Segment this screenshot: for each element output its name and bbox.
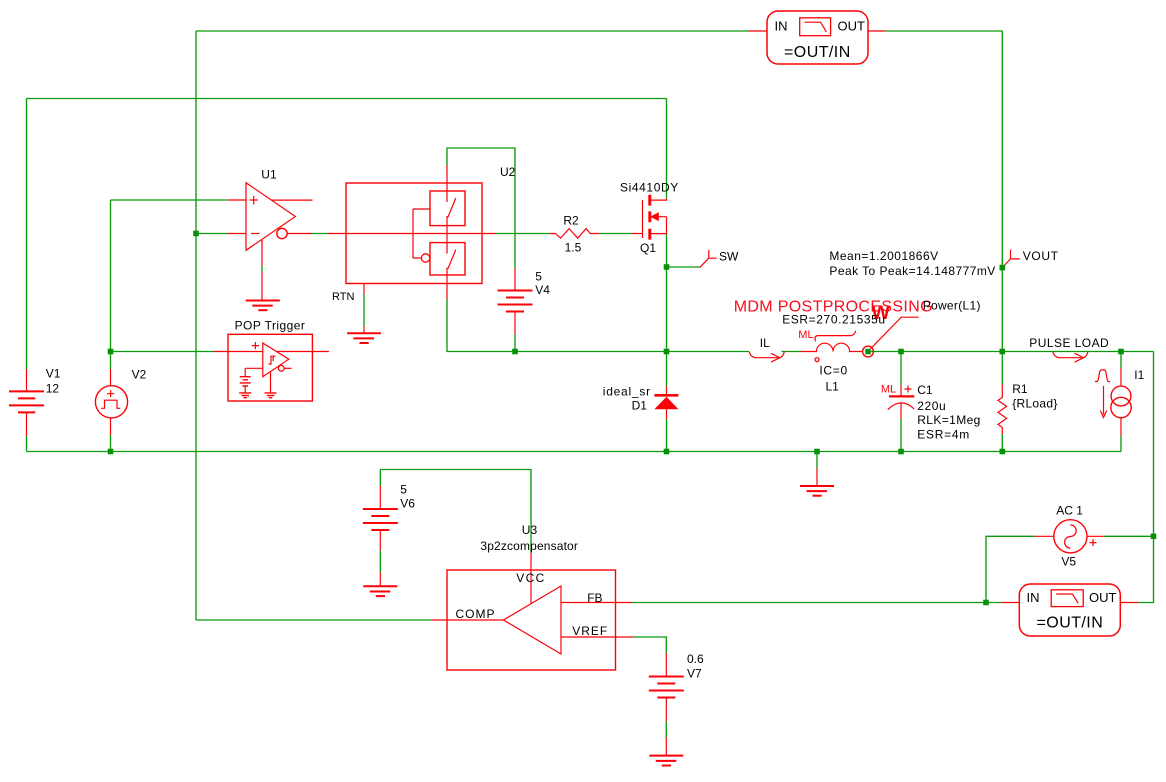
wire V7 bottom <box>665 721 667 737</box>
junction R1 bottom on ground rail <box>1000 449 1006 455</box>
wire V2 bottom branch <box>110 435 112 452</box>
svg-text:Si4410DY: Si4410DY <box>620 181 679 195</box>
junction AC source to VOUT rail <box>1151 534 1157 540</box>
pulse source V2 <box>95 367 146 435</box>
svg-text:Q1: Q1 <box>640 241 656 255</box>
svg-text:V6: V6 <box>400 497 415 511</box>
battery V1 12 <box>9 367 61 437</box>
junction COMP net at U1 minus input <box>193 231 199 237</box>
wire output rail segment 1 <box>667 351 750 353</box>
wire V2 node vertical <box>110 200 112 352</box>
svg-text:C1: C1 <box>917 383 933 397</box>
svg-text:U3: U3 <box>522 523 538 537</box>
svg-text:POP Trigger: POP Trigger <box>235 318 306 332</box>
svg-text:12: 12 <box>46 382 60 396</box>
wire U1 ground lead <box>261 266 263 272</box>
svg-text:220u: 220u <box>917 399 946 413</box>
svg-text:=OUT/IN: =OUT/IN <box>1037 615 1104 632</box>
wire V6 bottom <box>379 551 381 573</box>
resistor R1 {RLoad} <box>998 382 1058 434</box>
wire to POP trigger <box>111 351 215 353</box>
svg-text:AC 1: AC 1 <box>1056 503 1083 517</box>
svg-text:V7: V7 <box>687 667 702 681</box>
svg-text:ideal_sr: ideal_sr <box>603 384 651 398</box>
svg-text:D1: D1 <box>632 399 648 413</box>
junction V2 top node <box>108 349 114 355</box>
capacitor C1 <box>881 383 981 442</box>
junction V2 bottom on ground rail <box>108 449 114 455</box>
wire SW node vertical <box>666 234 668 386</box>
probe VOUT <box>1002 249 1058 268</box>
circled test point junction <box>863 346 874 357</box>
wire AC source right <box>1104 535 1154 537</box>
svg-text:PULSE LOAD: PULSE LOAD <box>1029 336 1109 350</box>
junction ground symbol on ground rail <box>814 449 820 455</box>
gate driver U2 <box>328 165 516 333</box>
svg-text:V2: V2 <box>132 367 147 381</box>
diode D1 ideal_sr <box>603 384 679 419</box>
wire V6 top <box>379 470 381 487</box>
loop-gain block X2 bottom =OUT/IN <box>1001 584 1138 636</box>
svg-text:IL: IL <box>760 336 770 350</box>
junction VOUT probe node <box>1000 265 1006 271</box>
svg-text:R2: R2 <box>563 213 579 227</box>
wire V4 bottom <box>514 334 516 352</box>
current probe IL <box>749 336 784 362</box>
svg-text:OUT: OUT <box>838 19 866 34</box>
svg-text:Mean=1.2001866V: Mean=1.2001866V <box>829 249 938 263</box>
svg-text:ESR=4m: ESR=4m <box>917 428 970 442</box>
wire U2 bottom pin to SW rail <box>447 299 667 351</box>
current source I1 <box>1095 368 1145 436</box>
wire U1 output to U2 <box>312 233 329 235</box>
compensator U3 3p2zcompensator <box>431 523 633 670</box>
svg-text:R1: R1 <box>1012 382 1028 396</box>
svg-text:1.5: 1.5 <box>565 241 582 255</box>
wire V1 top lead <box>26 99 28 370</box>
wire D1 to ground rail <box>666 419 668 452</box>
svg-text:ML: ML <box>881 384 896 396</box>
wire input rail y=98.5 <box>27 98 667 100</box>
wire V2 top branch <box>110 352 112 370</box>
junction SW probe node <box>664 264 670 270</box>
svg-text:V4: V4 <box>535 283 550 297</box>
wire U1 minus input <box>196 233 228 235</box>
wire ground bottom rail <box>27 451 1122 453</box>
wire COMP net <box>196 619 431 621</box>
probe SW <box>700 250 739 268</box>
wire top rail right segment <box>886 31 1002 352</box>
svg-text:0.6: 0.6 <box>687 652 704 666</box>
junction D1 anode on ground rail <box>664 449 670 455</box>
junction V4 minus on SW return <box>512 349 518 355</box>
junction SW rail at D1 <box>664 349 670 355</box>
svg-text:Power(L1): Power(L1) <box>923 299 981 313</box>
wire R1 branch <box>1001 352 1003 385</box>
wire FB net <box>632 602 1002 604</box>
ground RTN <box>347 333 381 343</box>
wire U2 top loop <box>447 148 515 268</box>
wire C1 branch <box>900 352 902 386</box>
current probe PULSE LOAD <box>1029 336 1109 362</box>
wire VREF net <box>633 637 666 653</box>
svg-text:ESR=270.21535u: ESR=270.21535u <box>782 312 885 326</box>
resistor R2 1.5 <box>549 213 598 254</box>
wire top rail left segment <box>196 30 749 32</box>
wire output rail segment 2 <box>782 351 801 353</box>
wire I1 branch <box>1120 352 1122 369</box>
svg-text:FB: FB <box>587 591 602 605</box>
wire RTN lead <box>363 294 365 326</box>
svg-text:=OUT/IN: =OUT/IN <box>784 44 851 61</box>
junction I1 top on output rail <box>1118 349 1124 355</box>
battery V6 5 <box>363 483 416 586</box>
wire Q1 drain vertical <box>666 99 668 199</box>
svg-text:U2: U2 <box>500 165 516 179</box>
battery V4 5 <box>498 268 551 334</box>
battery V7 0.6 <box>649 652 704 755</box>
wire to U1 plus input <box>111 199 228 201</box>
wire R2 to Q1 gate <box>599 233 632 235</box>
junction AC source to FB wire <box>983 600 989 606</box>
svg-text:I1: I1 <box>1134 368 1144 382</box>
svg-text:RLK=1Meg: RLK=1Meg <box>917 413 981 427</box>
op-amp U1 <box>228 168 313 301</box>
svg-text:Peak To Peak=14.148777mV: Peak To Peak=14.148777mV <box>829 264 995 278</box>
wire AC source left <box>986 536 1035 602</box>
wire rail ground lead <box>816 452 818 469</box>
svg-text:VCC: VCC <box>516 571 545 585</box>
wire right rail down to OUT pin <box>1138 352 1153 603</box>
svg-text:VREF: VREF <box>572 624 608 638</box>
svg-text:SW: SW <box>719 250 739 264</box>
svg-text:ML: ML <box>798 329 813 341</box>
wire left tall feedback vertical <box>195 31 197 620</box>
svg-text:IN: IN <box>1027 590 1040 605</box>
power probe W on L1 <box>871 299 981 349</box>
ground at output rail <box>816 468 818 486</box>
svg-text:RTN: RTN <box>332 291 354 303</box>
svg-text:V1: V1 <box>46 367 61 381</box>
junction C1 top on output rail <box>898 349 904 355</box>
wire SW probe stub <box>667 266 700 268</box>
svg-text:VOUT: VOUT <box>1023 249 1059 263</box>
ground under V7 <box>649 756 683 766</box>
svg-text:5: 5 <box>400 483 407 497</box>
svg-text:COMP: COMP <box>456 607 496 621</box>
svg-text:3p2zcompensator: 3p2zcompensator <box>480 539 578 553</box>
wire V1 bottom lead <box>26 436 28 452</box>
loop-gain block X1 top =OUT/IN <box>749 11 887 64</box>
MOSFET Q1 Si4410DY <box>620 181 679 256</box>
svg-text:OUT: OUT <box>1089 590 1117 605</box>
wire output rail segment 3 <box>871 351 1154 353</box>
svg-text:U1: U1 <box>261 168 277 182</box>
svg-text:L1: L1 <box>826 379 840 393</box>
svg-text:IN: IN <box>775 19 788 34</box>
junction C1 bottom on ground rail <box>898 449 904 455</box>
wire VCC net <box>380 470 531 553</box>
junction R1 top on output rail <box>1000 349 1006 355</box>
wire U2 out to R2 <box>496 233 549 235</box>
ground under V6 <box>363 586 397 596</box>
AC source V5 <box>1035 503 1104 568</box>
svg-text:5: 5 <box>535 269 542 283</box>
svg-text:{RLoad}: {RLoad} <box>1012 397 1057 411</box>
ground under U1 <box>246 301 280 311</box>
svg-text:V5: V5 <box>1061 555 1076 569</box>
inductor L1 <box>782 312 885 393</box>
svg-text:IC=0: IC=0 <box>819 363 847 377</box>
POP Trigger block <box>214 318 329 401</box>
